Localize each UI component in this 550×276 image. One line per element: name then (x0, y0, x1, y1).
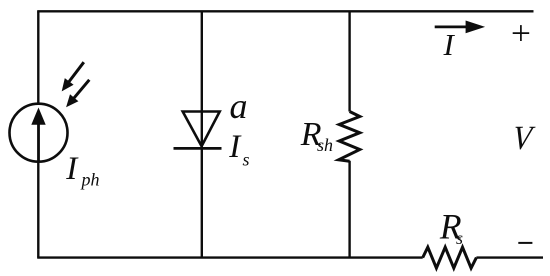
output current arrow (435, 21, 485, 34)
wire Rsh branch upper (348, 11, 350, 111)
resistor Rsh zigzag (339, 112, 360, 162)
plus terminal (513, 25, 530, 41)
minus terminal (518, 242, 532, 244)
svg-text:s: s (456, 228, 463, 248)
svg-text:I: I (443, 27, 456, 62)
resistor Rs zigzag (423, 247, 477, 268)
wire Rsh branch lower (348, 161, 350, 258)
svg-text:I: I (65, 151, 79, 187)
svg-text:sh: sh (317, 135, 333, 155)
diode cathode bar (174, 147, 222, 150)
svg-text:I: I (228, 129, 242, 165)
wire top rail (37, 10, 533, 12)
svg-text:s: s (243, 150, 250, 170)
light arrow 2 (66, 80, 89, 108)
wire left rail (37, 11, 39, 257)
wire bottom rail right of Rs (476, 256, 543, 258)
svg-text:a: a (230, 86, 248, 126)
wire diode branch (201, 11, 203, 257)
wire bottom rail left of Rs (37, 256, 423, 258)
diode triangle (183, 112, 220, 147)
light arrow 1 (62, 62, 84, 91)
current source arrow (31, 108, 45, 162)
svg-text:V: V (511, 120, 536, 158)
current source Iph circle (10, 104, 68, 162)
svg-text:ph: ph (80, 170, 100, 190)
